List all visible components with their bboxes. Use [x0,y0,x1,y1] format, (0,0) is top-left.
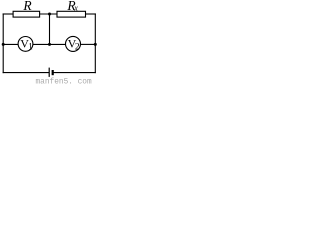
svg-text:x: x [73,4,78,13]
svg-text:2: 2 [75,43,80,53]
svg-text:R: R [22,0,32,13]
svg-text:manfen5. com: manfen5. com [36,79,92,84]
svg-text:1: 1 [28,42,33,52]
